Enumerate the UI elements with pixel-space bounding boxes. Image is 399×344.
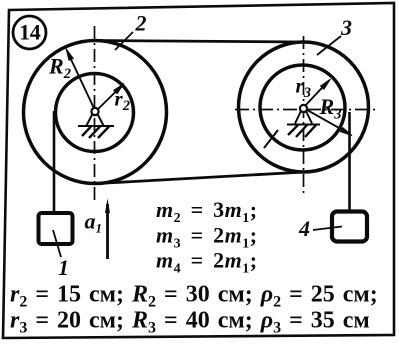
leader to pulley 2 [115,32,133,50]
svg-text:r3 = 20 см; R3 = 40 см; ρ3 = 3: r3 = 20 см; R3 = 40 см; ρ3 = 35 см [10,308,370,337]
pulley 3 axle pivot [295,105,312,124]
pulley 3 ground hatching [288,125,316,137]
load 4 box [332,212,367,242]
svg-text:4: 4 [298,216,310,241]
acceleration arrow a1 [105,199,110,260]
cord to load 1 [53,111,56,213]
pulley 3 outer rim (R3) [239,42,369,172]
load 1 box [39,213,73,244]
radius arrow r2 [96,84,125,112]
pulley 3 ground bar [287,124,320,126]
pulley 3 horizontal centerline [235,109,375,111]
belt top run [96,41,305,43]
svg-text:2: 2 [135,11,147,36]
svg-text:r2 = 15 см; R2 = 30 см; ρ2 = 2: r2 = 15 см; R2 = 30 см; ρ2 = 25 см; [10,282,378,311]
svg-text:R3: R3 [319,94,342,123]
cord to load 4 [348,112,351,212]
belt bottom run [99,172,307,184]
pulley 2 inner rim (r2) [56,74,134,152]
leader to load 4 [313,227,342,231]
radius arrow R3 [305,109,353,136]
svg-text:3: 3 [340,15,352,40]
problem number badge 14 [13,16,46,49]
pulley 2 axle pivot [87,108,104,126]
pulley 2 ground hatching [82,127,109,139]
leader to pulley 3 [317,36,341,55]
svg-text:R2: R2 [48,54,71,83]
svg-text:m4 = 2m1;: m4 = 2m1; [156,248,258,277]
svg-text:a1: a1 [85,209,103,236]
svg-text:r3: r3 [296,74,311,102]
leader to load 1 [53,230,61,257]
radius arrow r3 [303,79,331,108]
pulley 3 vertical centerline [303,36,305,196]
pulley 3 diagonal tick [264,130,278,148]
radius arrow R2 [66,49,96,112]
pulley 3 inner rim (r3) [260,65,345,150]
svg-text:1: 1 [58,255,69,280]
pulley 2 ground bar [78,125,114,127]
pulley 2 vertical centerline [94,26,96,202]
pulley 2 outer rim (R2) [24,41,167,184]
svg-text:14: 14 [19,20,41,45]
